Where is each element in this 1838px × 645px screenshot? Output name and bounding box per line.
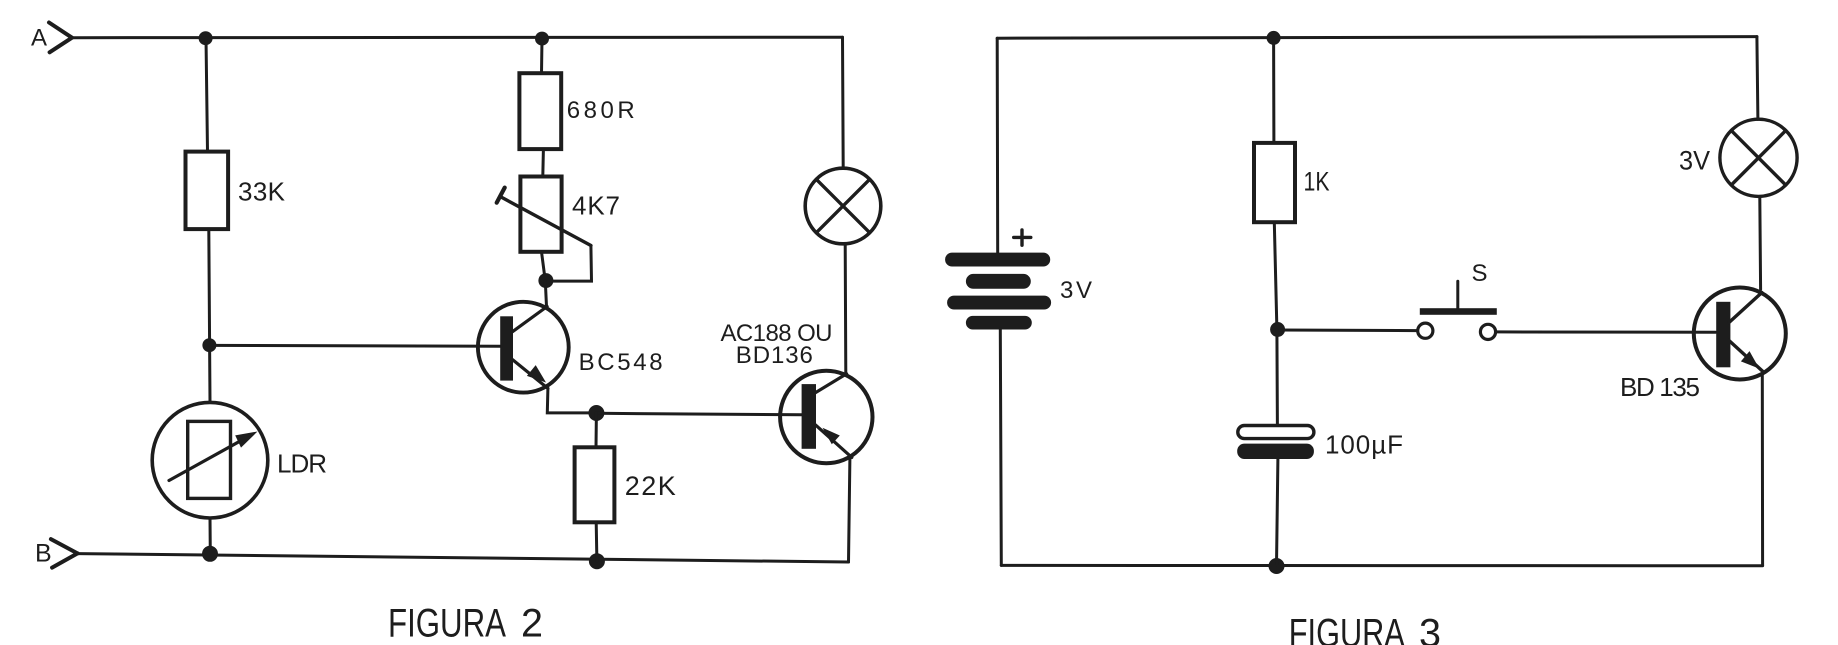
svg-text:A: A [31,25,47,52]
wire 680R to 4K7 [541,149,545,176]
wire bottom fig3 [1001,564,1762,567]
node bottom fig3 [1269,558,1285,574]
wire emitter BD135 down [1761,375,1764,566]
wire collector BC548 top [545,281,546,306]
lamp fig2 [805,168,881,244]
wire left fig3 [996,38,1000,254]
resistor 1K [1254,143,1330,222]
node bottom-left fig2 [202,546,218,562]
svg-text:B: B [35,540,52,568]
resistor 680R [519,73,634,149]
transistor BC548 [478,302,663,393]
wire base PNP [596,413,801,415]
potentiometer 4K7 [497,177,620,252]
wire 680R top [540,39,544,74]
svg-text:FIGURA: FIGURA [1289,612,1405,645]
node top 1K [1267,31,1281,45]
switch S [1418,260,1497,340]
node base junction [202,338,216,352]
wire lamp top fig2 [841,37,845,168]
transistor AC188/BD136 [721,320,873,463]
svg-text:BD136: BD136 [736,342,813,369]
wire top fig3 [997,37,1757,39]
svg-text:2: 2 [521,601,543,645]
svg-text:1K: 1K [1304,167,1330,197]
wire 33K top [206,38,208,152]
wire capacitor top [1275,330,1279,426]
svg-text:LDR: LDR [277,449,327,479]
wire bottom fig2 [78,554,849,562]
wire LDR bottom [209,518,212,554]
wire 22K bottom [595,522,599,561]
svg-text:BD 135: BD 135 [1620,372,1700,402]
node switch junction [1270,322,1285,337]
wire 1K top [1272,38,1275,143]
wire 33K to LDR [209,229,210,402]
capacitor 100uF [1237,426,1403,460]
wire battery bottom [1000,329,1001,566]
svg-text:33K: 33K [238,177,286,207]
battery 3V [945,230,1092,330]
svg-text:S: S [1472,260,1488,287]
LDR [152,402,327,518]
wire collector BD135 up [1758,198,1762,290]
wire collector PNP up [844,244,848,374]
wire lamp top fig3 [1757,37,1758,120]
resistor 22K [575,447,676,522]
lamp 3V fig3 [1679,119,1797,196]
svg-text:22K: 22K [625,471,676,501]
svg-text:FIGURA: FIGURA [388,601,506,645]
wire 4K7 bottom lead [542,252,546,281]
wire capacitor bottom [1277,459,1278,565]
svg-text:4K7: 4K7 [572,191,620,221]
svg-text:680R: 680R [567,97,635,124]
svg-text:BC548: BC548 [579,349,663,376]
svg-text:100µF: 100µF [1325,430,1403,460]
node bottom-mid fig2 [589,553,605,569]
wire emitter BC548 to node [547,388,596,413]
svg-text:3: 3 [1419,612,1441,645]
resistor 33K [186,152,286,230]
wire 22K top [595,413,598,447]
wire switch to base BD135 [1496,330,1716,333]
node junction top-mid fig2 [535,32,549,46]
wire 1K bottom [1274,222,1277,329]
wire base BC548 [209,344,500,348]
wire top fig2 [72,36,843,40]
wire node to switch [1278,329,1418,333]
node emitter junction [588,405,604,421]
transistor BD135 [1620,288,1786,403]
svg-text:3V: 3V [1679,146,1710,176]
terminal A [31,23,72,53]
svg-text:3V: 3V [1060,277,1092,304]
node junction top-left fig2 [199,31,213,45]
terminal B [35,539,78,568]
node below 4K7 [538,273,553,288]
wire 4K7 wiper to node [546,246,592,282]
wire emitter PNP down [849,458,850,562]
